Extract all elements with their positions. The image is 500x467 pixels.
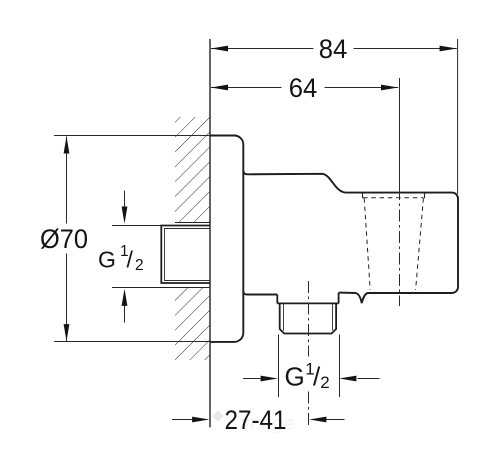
svg-text:G: G xyxy=(98,247,116,273)
inlet thread inner (root) line xyxy=(165,229,211,281)
bracket hole hidden left taper xyxy=(364,198,370,290)
dimension D70 line xyxy=(66,137,68,342)
outlet collar xyxy=(277,293,338,304)
flange (escutcheon) outline xyxy=(210,136,243,342)
dimension D70 bottom extension xyxy=(54,341,210,343)
body bottom edge left of outlet xyxy=(243,291,277,294)
wall hole bottom edge / G1/2 extension xyxy=(112,287,210,289)
svg-text:27-41: 27-41 xyxy=(225,405,287,435)
bracket hole hidden top edge xyxy=(363,197,423,199)
bottom G1/2 extension lines xyxy=(279,335,340,398)
dimension 84 arrows xyxy=(211,46,228,52)
dimension 84 extension right xyxy=(457,39,459,194)
bottom G1/2 dimension line and arrows xyxy=(243,378,380,380)
bracket counterbore lips xyxy=(363,193,425,199)
thread top extension line xyxy=(112,225,162,227)
wall hatch upper block xyxy=(175,117,210,222)
dimension 64 arrows xyxy=(211,85,228,91)
outlet thread root lines xyxy=(284,303,333,330)
svg-text:G: G xyxy=(285,361,305,391)
dimension 84 line xyxy=(211,48,457,50)
faint watermark xyxy=(212,410,294,435)
G1/2 left up arrow xyxy=(124,305,126,323)
svg-text:2: 2 xyxy=(135,257,144,274)
dimension 27-41 line and arrows xyxy=(172,419,345,421)
dimension D70 arrows xyxy=(64,136,70,153)
svg-text:2: 2 xyxy=(320,373,329,392)
wall hole top edge xyxy=(175,222,210,224)
svg-text:64: 64 xyxy=(289,73,318,103)
wall face line xyxy=(209,39,211,427)
body top contour with step and holder bracket xyxy=(243,171,458,304)
bracket hole centerline / 64 extension xyxy=(399,78,401,188)
G1/2 left down arrow xyxy=(124,191,126,209)
svg-text:84: 84 xyxy=(319,34,348,64)
dimension D70 top extension xyxy=(54,135,210,137)
outlet centerline xyxy=(308,281,310,357)
svg-text:/: / xyxy=(127,247,134,273)
dimension 64 line xyxy=(211,87,398,89)
outlet thread xyxy=(280,303,336,333)
svg-text:Ø70: Ø70 xyxy=(40,224,88,254)
inlet thread (behind wall) outer xyxy=(161,226,210,284)
wall hatch lower block xyxy=(175,287,210,360)
bracket hole hidden right taper xyxy=(416,198,424,290)
